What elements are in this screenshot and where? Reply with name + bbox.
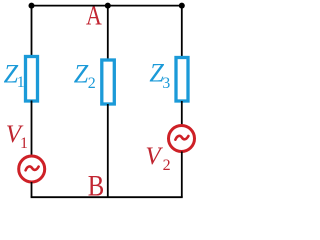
impedance Z3 bbox=[176, 58, 188, 102]
impedance Z2 bbox=[102, 60, 115, 104]
svg-text:3: 3 bbox=[162, 75, 170, 92]
wire: right branch top (top bus to Z3) bbox=[181, 6, 183, 58]
wire: left branch top (top bus to Z1) bbox=[31, 6, 33, 57]
svg-text:B: B bbox=[88, 169, 105, 202]
svg-text:2: 2 bbox=[163, 157, 171, 174]
impedance Z1 bbox=[26, 57, 38, 102]
junction dot: right branch / top bus bbox=[179, 3, 185, 9]
wire: bottom bus from left branch to right branch bbox=[31, 196, 183, 198]
svg-text:2: 2 bbox=[88, 75, 96, 92]
label Z1 bbox=[4, 60, 25, 92]
wire: left branch bottom (V1 to bottom bus) bbox=[31, 182, 33, 197]
label V2 bbox=[145, 143, 170, 174]
svg-text:Z: Z bbox=[74, 59, 89, 88]
wire: right branch bottom (V2 to bottom bus) bbox=[181, 152, 183, 198]
wire: middle branch bottom (Z2 to node B) bbox=[107, 104, 109, 197]
label Z3 bbox=[149, 58, 170, 92]
svg-text:1: 1 bbox=[20, 135, 28, 152]
source V2 (AC) bbox=[169, 126, 195, 152]
wire: middle branch top (node A to Z2) bbox=[107, 6, 109, 60]
svg-text:V: V bbox=[145, 143, 163, 170]
wire: top bus from left branch to right branch bbox=[32, 5, 182, 7]
junction dot: node A on top bus bbox=[105, 3, 111, 9]
source V1 (AC) bbox=[19, 156, 45, 182]
wire: left branch middle (Z1 to V1) bbox=[31, 101, 33, 157]
svg-text:A: A bbox=[86, 1, 102, 31]
label V1 bbox=[6, 121, 28, 152]
wire: right branch middle (Z3 to V2) bbox=[181, 101, 183, 126]
label Z2 bbox=[74, 59, 96, 92]
junction dot: left branch / top bus bbox=[29, 3, 35, 9]
svg-text:1: 1 bbox=[17, 74, 25, 91]
